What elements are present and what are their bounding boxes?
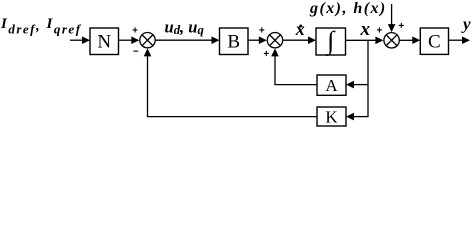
block A xyxy=(317,75,346,95)
arrowhead into S1 xyxy=(131,36,139,44)
svg-text:B: B xyxy=(227,32,240,53)
svg-text:+: + xyxy=(263,49,269,60)
arrowhead output y xyxy=(462,36,470,44)
arrowhead up into S2 xyxy=(271,48,279,56)
svg-text:x: x xyxy=(360,19,371,40)
arrowhead down into S3 xyxy=(388,24,396,32)
wire gh down into S3 xyxy=(391,4,393,25)
wire tap from x line down xyxy=(367,40,369,117)
arrowhead into B xyxy=(212,36,220,44)
svg-text:+: + xyxy=(398,21,404,32)
block K xyxy=(317,107,346,127)
svg-text:N: N xyxy=(97,32,111,53)
wire A out to S2 xyxy=(275,51,317,85)
arrowhead into A xyxy=(346,81,354,89)
wire S3 to C xyxy=(400,39,415,41)
summing junction S2 xyxy=(267,33,282,48)
svg-text:g(x), h(x): g(x), h(x) xyxy=(309,0,387,17)
svg-text:+: + xyxy=(259,26,265,37)
svg-text:+: + xyxy=(376,26,382,37)
wire N to S1 xyxy=(119,39,134,41)
wire into A xyxy=(353,84,369,86)
svg-text:C: C xyxy=(428,32,441,53)
svg-text:A: A xyxy=(325,76,338,95)
arrowhead into integrator xyxy=(308,36,316,44)
integrator block xyxy=(316,26,346,56)
arrowhead into K xyxy=(346,113,354,121)
arrowhead up into S1 xyxy=(144,48,152,56)
arrowhead into S2 xyxy=(259,36,267,44)
summing junction S1 xyxy=(140,33,155,48)
svg-text:x: x xyxy=(295,19,305,39)
svg-text:K: K xyxy=(325,108,338,127)
wire B to S2 xyxy=(248,39,261,41)
wire input xyxy=(70,39,84,41)
block C xyxy=(420,28,448,54)
wire C to output xyxy=(449,39,465,41)
block B xyxy=(220,28,249,55)
svg-text:+: + xyxy=(132,26,138,37)
svg-text:y: y xyxy=(461,15,471,34)
wire K out to S1 xyxy=(148,51,318,117)
block N xyxy=(90,28,119,55)
wire S2 to integrator xyxy=(283,39,310,41)
wire into K xyxy=(353,116,369,118)
summing junction S3 xyxy=(384,33,399,48)
wire S1 to B xyxy=(156,39,213,41)
arrowhead into N xyxy=(82,36,90,44)
wire integrator to S3 xyxy=(346,39,378,41)
arrowhead into S3 xyxy=(375,37,383,45)
arrowhead into C xyxy=(412,36,420,44)
svg-text:−: − xyxy=(133,47,139,58)
